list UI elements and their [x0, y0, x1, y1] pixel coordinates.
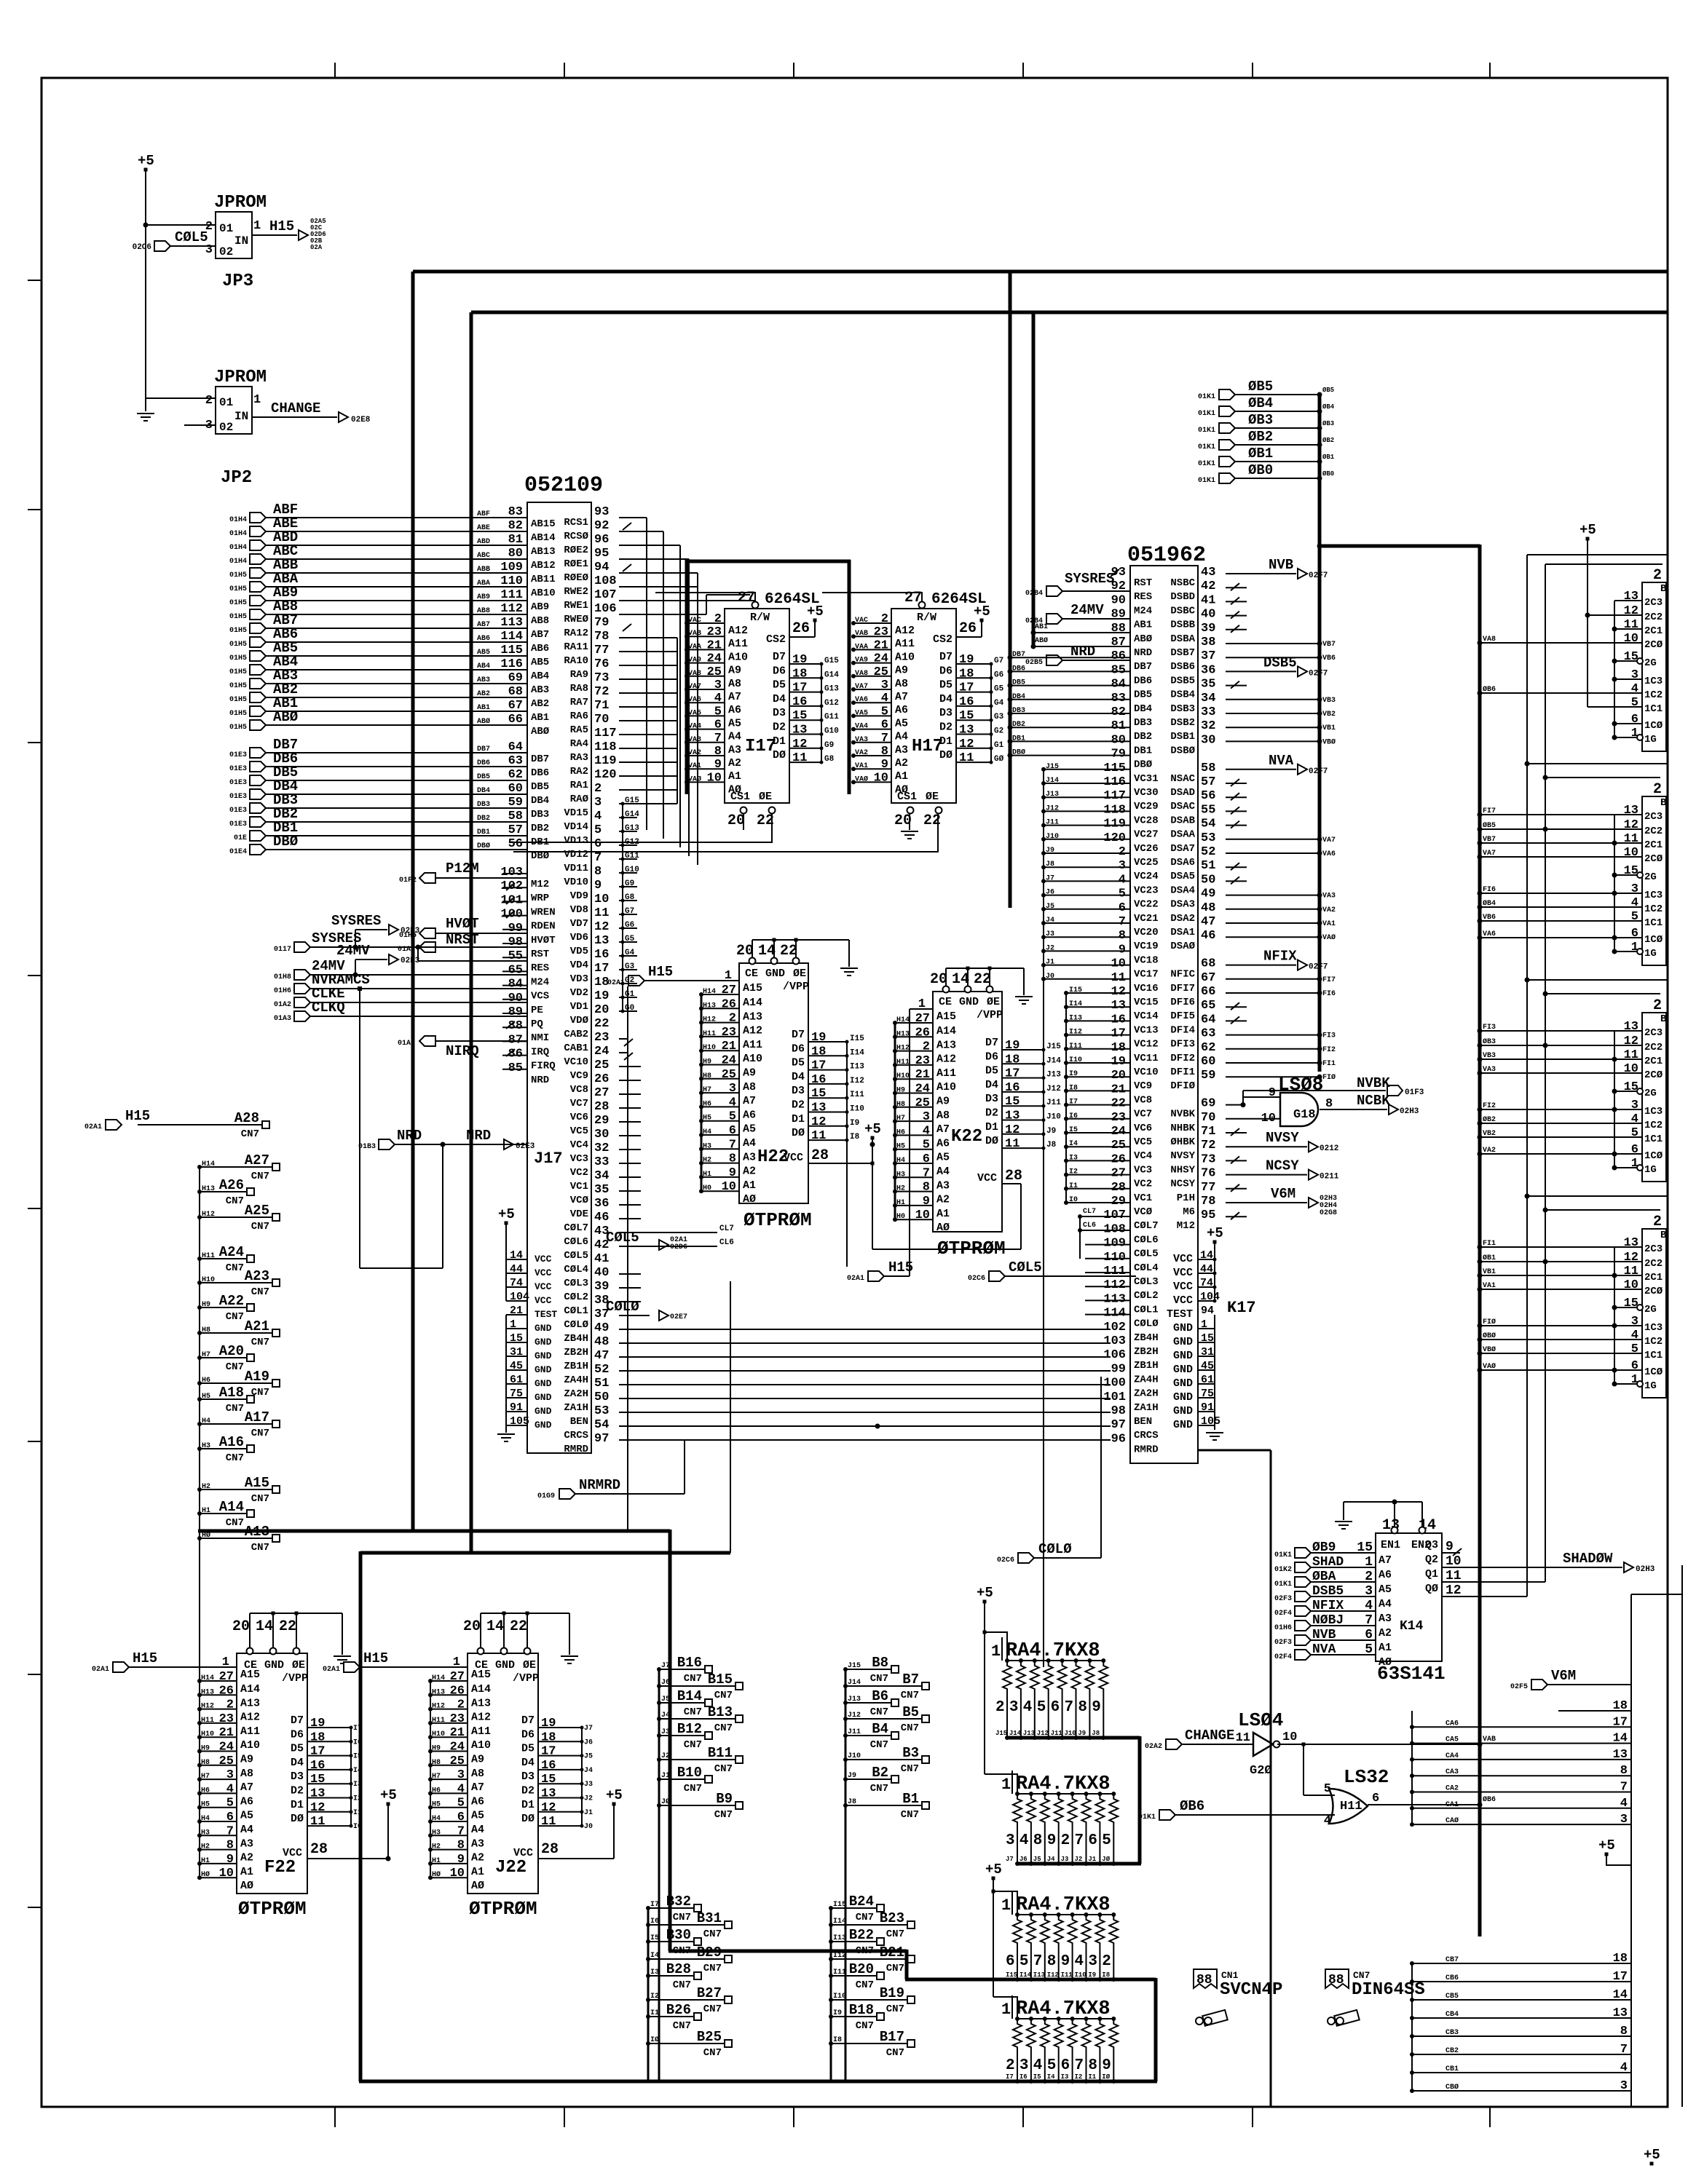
thick bus mid bottom horizontal: [669, 1950, 907, 1953]
svg-text:58: 58: [1201, 761, 1215, 775]
svg-text:01H4: 01H4: [229, 544, 247, 552]
svg-text:B5: B5: [902, 1704, 919, 1720]
svg-text:1: 1: [991, 1642, 1001, 1661]
svg-text:H4: H4: [703, 1128, 711, 1136]
svg-text:ABA: ABA: [477, 579, 490, 587]
svg-text:G1: G1: [625, 990, 635, 999]
svg-text:12: 12: [1624, 1034, 1638, 1048]
svg-text:4: 4: [1119, 873, 1126, 887]
svg-text:DSBØ: DSBØ: [1170, 745, 1195, 756]
svg-text:VC28: VC28: [1134, 815, 1159, 826]
svg-text:VC7: VC7: [1134, 1109, 1152, 1120]
svg-text:94: 94: [1201, 1305, 1214, 1317]
svg-text:AB11: AB11: [531, 574, 556, 585]
svg-text:CN7: CN7: [703, 2003, 722, 2015]
flag SYSRES input 02B4 to K17: [1025, 569, 1130, 598]
svg-text:IØ: IØ: [1102, 2073, 1110, 2081]
svg-text:I4: I4: [650, 1952, 659, 1960]
svg-text:02H3: 02H3: [1636, 1565, 1655, 1574]
svg-text:13: 13: [792, 724, 807, 737]
svg-text:45: 45: [1201, 1360, 1214, 1372]
svg-text:120: 120: [1103, 831, 1126, 845]
svg-text:21: 21: [722, 1040, 736, 1053]
svg-text:0212: 0212: [1320, 1144, 1338, 1153]
svg-text:98: 98: [1111, 1404, 1126, 1418]
svg-text:12: 12: [1005, 1123, 1019, 1137]
wire mux inputs from bus: [1478, 1024, 1615, 1157]
svg-text:V6M: V6M: [1271, 1186, 1295, 1202]
svg-text:VA3: VA3: [855, 736, 868, 744]
svg-text:73: 73: [1201, 1152, 1215, 1166]
svg-text:ZA4H: ZA4H: [564, 1374, 588, 1386]
svg-text:A27: A27: [245, 1152, 269, 1168]
svg-text:A11: A11: [743, 1039, 762, 1051]
svg-text:10: 10: [1624, 632, 1638, 646]
svg-text:DSB5: DSB5: [1170, 675, 1195, 687]
svg-text:B7: B7: [902, 1671, 919, 1688]
svg-text:D2: D2: [773, 721, 786, 734]
svg-text:VC10: VC10: [564, 1056, 588, 1068]
svg-text:A17: A17: [245, 1409, 269, 1425]
svg-text:H3: H3: [202, 1442, 210, 1450]
svg-text:G11: G11: [625, 852, 639, 860]
svg-text:CHANGE: CHANGE: [1185, 1728, 1234, 1744]
svg-text:/VPP: /VPP: [282, 1672, 308, 1685]
svg-text:ØB0: ØB0: [1248, 462, 1273, 478]
svg-text:3: 3: [1009, 1699, 1019, 1716]
wire V6M output arrows: [1226, 1184, 1337, 1219]
svg-text:VA3: VA3: [1483, 1066, 1496, 1074]
svg-text:6: 6: [1119, 901, 1126, 915]
svg-text:FI6: FI6: [1322, 990, 1336, 998]
svg-text:H10: H10: [202, 1276, 215, 1284]
svg-text:01E3: 01E3: [229, 751, 247, 759]
svg-text:13: 13: [1613, 2006, 1628, 2020]
gate G18 LS08 AND: [1226, 1074, 1333, 1126]
svg-text:64: 64: [508, 740, 523, 754]
svg-text:2: 2: [1102, 1953, 1111, 1970]
svg-text:77: 77: [594, 644, 609, 657]
svg-text:CN7: CN7: [684, 1706, 702, 1718]
svg-text:A26: A26: [219, 1177, 244, 1193]
svg-text:1G: 1G: [1644, 734, 1657, 745]
svg-text:2: 2: [923, 1040, 930, 1054]
svg-text:66: 66: [1201, 985, 1215, 999]
svg-text:G18: G18: [1293, 1108, 1316, 1122]
svg-text:J15: J15: [1046, 1042, 1061, 1051]
svg-text:AB10: AB10: [531, 587, 556, 599]
svg-text:A15: A15: [240, 1669, 260, 1681]
svg-text:I1: I1: [1088, 2073, 1096, 2081]
svg-text:NVBK: NVBK: [1357, 1075, 1390, 1091]
svg-text:01K1: 01K1: [1198, 460, 1215, 468]
svg-text:CØL5: CØL5: [606, 1230, 639, 1246]
svg-text:D4: D4: [792, 1071, 805, 1083]
svg-text:18: 18: [1005, 1053, 1019, 1067]
svg-text:ØHBK: ØHBK: [1170, 1136, 1195, 1148]
svg-text:13: 13: [541, 1787, 556, 1801]
svg-text:25: 25: [450, 1754, 465, 1768]
svg-text:9: 9: [226, 1853, 234, 1867]
svg-text:8: 8: [1620, 1764, 1628, 1778]
svg-text:TEST: TEST: [535, 1309, 557, 1320]
svg-text:1: 1: [1001, 1776, 1011, 1794]
svg-text:VC17: VC17: [1134, 969, 1159, 981]
svg-text:D5: D5: [792, 1057, 805, 1069]
svg-text:16: 16: [594, 948, 609, 962]
wire NVB output arrow 02F7: [1226, 557, 1328, 580]
svg-text:6: 6: [881, 719, 888, 732]
svg-text:2C2: 2C2: [1644, 826, 1663, 837]
svg-text:32: 32: [1201, 719, 1215, 733]
svg-text:02A1: 02A1: [92, 1666, 109, 1674]
svg-text:A8: A8: [240, 1768, 253, 1780]
svg-text:6: 6: [1372, 1792, 1379, 1805]
svg-text:11: 11: [811, 1129, 826, 1143]
svg-text:106: 106: [1103, 1348, 1126, 1362]
svg-text:11: 11: [1624, 618, 1638, 632]
svg-text:J15: J15: [848, 1662, 861, 1670]
svg-text:H14: H14: [896, 1016, 910, 1024]
svg-text:I14: I14: [1019, 1971, 1032, 1979]
svg-text:60: 60: [508, 782, 523, 796]
svg-text:NHSY: NHSY: [1170, 1164, 1195, 1176]
svg-text:69: 69: [1201, 1097, 1215, 1111]
svg-text:DSB5: DSB5: [1263, 654, 1297, 670]
svg-text:8: 8: [226, 1839, 234, 1853]
svg-text:A25: A25: [245, 1203, 269, 1219]
svg-text:DB2: DB2: [477, 815, 490, 823]
svg-text:ZB1H: ZB1H: [1134, 1360, 1159, 1372]
svg-text:J1: J1: [1046, 959, 1054, 967]
flag H15 input 02A1 bottom: [847, 1259, 913, 1283]
svg-text:R/W: R/W: [917, 612, 936, 624]
connector pins B16-B9 CN7: [657, 1655, 743, 2081]
svg-text:3: 3: [1119, 859, 1126, 873]
thick bus vertical near 051962: [1009, 272, 1012, 908]
svg-text:21: 21: [1111, 1083, 1126, 1096]
svg-text:VA9: VA9: [688, 657, 701, 665]
svg-text:17: 17: [1613, 1970, 1628, 1984]
svg-text:VA9: VA9: [855, 657, 868, 665]
svg-text:CA3: CA3: [1446, 1768, 1459, 1776]
svg-text:B3: B3: [902, 1745, 919, 1761]
svg-text:NCSY: NCSY: [1170, 1179, 1195, 1190]
svg-text:47: 47: [1201, 915, 1215, 929]
svg-text:87: 87: [508, 1033, 523, 1047]
svg-text:A2: A2: [728, 757, 741, 769]
svg-text:3: 3: [1620, 2079, 1628, 2093]
wire J22 A15 H15 input flag 02A1: [323, 1650, 491, 1681]
wire CA bus vertical: [1411, 1711, 1413, 1824]
svg-text:/VPP: /VPP: [977, 1009, 1003, 1021]
svg-text:33: 33: [1201, 705, 1215, 719]
svg-text:CN7: CN7: [870, 1706, 888, 1718]
svg-text:CRCS: CRCS: [564, 1430, 588, 1441]
svg-text:51: 51: [1201, 859, 1215, 873]
svg-text:DB3: DB3: [1134, 717, 1152, 729]
wire H bus vertical A-connector: [199, 1167, 200, 1877]
svg-text:VA3: VA3: [1322, 893, 1336, 901]
svg-text:I11: I11: [850, 1091, 864, 1099]
svg-text:CE: CE: [745, 968, 758, 980]
svg-text:6: 6: [457, 1811, 465, 1824]
svg-text:G3: G3: [994, 713, 1004, 721]
svg-text:051962: 051962: [1127, 543, 1206, 568]
svg-text:H13: H13: [896, 1030, 910, 1038]
svg-text:90: 90: [1111, 593, 1126, 607]
svg-text:9: 9: [1102, 2057, 1111, 2074]
svg-text:H11: H11: [202, 1252, 215, 1260]
svg-text:DFI5: DFI5: [1170, 1010, 1195, 1022]
wire mux inputs from bus: [1478, 807, 1615, 941]
svg-text:J8: J8: [1046, 860, 1054, 869]
svg-text:10: 10: [707, 771, 722, 785]
svg-text:LSØ4: LSØ4: [1238, 1709, 1283, 1731]
svg-text:A1: A1: [471, 1866, 484, 1878]
svg-text:VA1: VA1: [688, 762, 701, 770]
svg-text:112: 112: [1103, 1278, 1126, 1292]
svg-text:D1: D1: [773, 735, 786, 748]
svg-text:01F3: 01F3: [1405, 1088, 1424, 1097]
svg-text:11: 11: [1624, 832, 1638, 846]
svg-text:CL6: CL6: [1083, 1222, 1096, 1230]
wire I17 CS1 OE bottom pins: [727, 807, 776, 830]
svg-text:13: 13: [1624, 1236, 1638, 1250]
svg-text:B31: B31: [697, 1910, 722, 1926]
svg-text:FI6: FI6: [1483, 886, 1496, 894]
svg-text:01K1: 01K1: [1198, 443, 1215, 451]
svg-text:DSB2: DSB2: [1170, 717, 1195, 729]
svg-text:10: 10: [874, 771, 888, 785]
svg-text:A15: A15: [245, 1475, 269, 1491]
svg-text:CN7: CN7: [714, 1763, 733, 1775]
svg-text:CN7: CN7: [251, 1542, 269, 1554]
svg-text:113: 113: [500, 616, 523, 630]
svg-text:A2: A2: [936, 1194, 950, 1206]
svg-text:B: B: [1660, 583, 1667, 595]
svg-text:QØ: QØ: [1425, 1583, 1438, 1595]
svg-text:DB4: DB4: [477, 787, 490, 795]
svg-text:1C3: 1C3: [1644, 676, 1663, 687]
svg-text:VC19: VC19: [1134, 941, 1159, 952]
svg-text:A2: A2: [743, 1166, 756, 1178]
svg-text:95: 95: [594, 547, 609, 561]
flag CLKQ input 01A3: [274, 1000, 527, 1023]
svg-text:53: 53: [1201, 831, 1215, 845]
IC mux block at y1094: [1612, 781, 1668, 965]
svg-text:H2: H2: [432, 1843, 441, 1851]
svg-text:119: 119: [594, 754, 617, 768]
thick bus VA rail H17 vertical: [848, 560, 851, 794]
svg-text:GND: GND: [495, 1659, 515, 1671]
svg-text:VB1: VB1: [1483, 1268, 1496, 1276]
svg-text:B: B: [1660, 797, 1667, 809]
svg-text:18: 18: [811, 1045, 826, 1059]
svg-text:A18: A18: [219, 1385, 244, 1401]
svg-text:2: 2: [594, 782, 602, 796]
svg-text:02F3: 02F3: [1274, 1639, 1292, 1647]
svg-text:A2: A2: [895, 757, 908, 769]
svg-text:H13: H13: [703, 1002, 716, 1010]
svg-text:104: 104: [1200, 1291, 1220, 1303]
svg-text:CN7: CN7: [856, 1945, 874, 1957]
wire K22 A15 feed: [910, 1009, 933, 1276]
svg-text:9: 9: [714, 758, 722, 772]
svg-text:01: 01: [219, 396, 233, 409]
svg-text:02F7: 02F7: [1309, 767, 1328, 776]
svg-text:VD10: VD10: [564, 877, 588, 888]
svg-text:ØE: ØE: [926, 791, 939, 803]
svg-text:A7: A7: [471, 1781, 484, 1794]
svg-text:DB1: DB1: [1134, 745, 1152, 756]
svg-text:17: 17: [541, 1745, 556, 1759]
svg-text:J4: J4: [661, 1712, 670, 1720]
svg-text:5: 5: [226, 1797, 234, 1811]
svg-text:A12: A12: [240, 1712, 260, 1724]
power +5 to RA packs 1-2: [977, 1585, 1017, 1794]
svg-text:A3: A3: [895, 744, 908, 756]
svg-text:J1: J1: [584, 1809, 593, 1817]
svg-text:CØL2: CØL2: [564, 1291, 588, 1303]
flag NRD input 01B3 with arrow 02E3: [358, 1128, 535, 1151]
thick bus 0B to right blocks: [1318, 545, 1480, 548]
svg-text:26: 26: [1111, 1152, 1126, 1166]
svg-text:B2: B2: [872, 1765, 888, 1781]
svg-text:H1: H1: [703, 1171, 711, 1179]
svg-text:SVCN4P: SVCN4P: [1220, 1980, 1282, 2000]
svg-text:15: 15: [1624, 1080, 1638, 1094]
svg-text:GND: GND: [959, 996, 979, 1008]
svg-text:3: 3: [1019, 2057, 1029, 2074]
svg-text:J9: J9: [1046, 847, 1054, 855]
svg-text:A12: A12: [936, 1053, 956, 1066]
svg-text:DFI2: DFI2: [1170, 1053, 1195, 1064]
thick bus above B-connectors horizontal: [198, 1530, 670, 1533]
svg-text:RST: RST: [1134, 577, 1152, 589]
svg-text:A2: A2: [471, 1852, 484, 1864]
svg-text:VCC: VCC: [1173, 1281, 1193, 1293]
svg-text:118: 118: [1103, 803, 1126, 817]
svg-text:115: 115: [500, 644, 523, 657]
svg-text:G14: G14: [824, 670, 839, 679]
svg-text:13: 13: [310, 1787, 325, 1801]
svg-text:83: 83: [1111, 692, 1126, 705]
wire F22 VCC to +5: [307, 1787, 397, 1861]
svg-text:JPROM: JPROM: [214, 193, 267, 213]
svg-text:AB3: AB3: [531, 684, 549, 696]
svg-text:15: 15: [1357, 1540, 1373, 1555]
svg-text:5: 5: [1365, 1642, 1373, 1657]
svg-text:D3: D3: [939, 707, 953, 719]
svg-text:CB7: CB7: [1446, 1956, 1459, 1964]
svg-text:H8: H8: [432, 1759, 441, 1767]
wire DB7-DB0 long bus into K17: [1008, 651, 1131, 758]
svg-text:8: 8: [1033, 1832, 1043, 1849]
svg-text:113: 113: [1103, 1292, 1126, 1306]
svg-text:42: 42: [1201, 579, 1215, 593]
svg-text:VA6: VA6: [688, 696, 701, 704]
svg-text:28: 28: [811, 1147, 829, 1164]
svg-text:G12: G12: [824, 699, 839, 708]
svg-text:CL7: CL7: [1083, 1208, 1096, 1216]
svg-text:J1: J1: [661, 1772, 670, 1780]
svg-text:47: 47: [594, 1349, 609, 1363]
svg-text:VAØ: VAØ: [1483, 1362, 1496, 1371]
svg-text:A24: A24: [219, 1244, 244, 1260]
svg-text:66: 66: [508, 713, 523, 727]
svg-text:01H5: 01H5: [229, 668, 247, 676]
svg-text:ØTPRØM: ØTPRØM: [744, 1209, 812, 1231]
svg-text:A20: A20: [219, 1343, 244, 1359]
svg-text:J11: J11: [1046, 1099, 1061, 1107]
wire K17 to CN7 net elbow: [1198, 1450, 1271, 2106]
svg-text:VCC: VCC: [283, 1847, 302, 1859]
svg-text:J11: J11: [1046, 819, 1059, 827]
svg-text:B27: B27: [697, 1985, 722, 2001]
svg-text:DB4: DB4: [1134, 703, 1152, 715]
svg-text:NHBK: NHBK: [1170, 1123, 1195, 1134]
svg-text:FI7: FI7: [1483, 807, 1496, 815]
svg-text:85: 85: [508, 1061, 523, 1075]
svg-text:VD3: VD3: [570, 973, 588, 985]
svg-text:VB7: VB7: [1483, 836, 1496, 844]
svg-text:RA8: RA8: [570, 683, 588, 695]
svg-text:A1: A1: [895, 770, 908, 783]
svg-text:J13: J13: [848, 1696, 861, 1704]
svg-text:16: 16: [1111, 1013, 1126, 1026]
svg-text:27: 27: [722, 984, 736, 997]
svg-text:D5: D5: [521, 1743, 535, 1755]
svg-text:052109: 052109: [524, 473, 603, 498]
svg-text:B13: B13: [708, 1704, 733, 1720]
svg-text:J9: J9: [1046, 1127, 1056, 1136]
svg-text:106: 106: [594, 602, 617, 616]
svg-text:VC11: VC11: [1134, 1053, 1159, 1064]
svg-text:A11: A11: [895, 638, 915, 650]
svg-text:40: 40: [594, 1266, 609, 1280]
svg-text:23: 23: [722, 1026, 736, 1040]
svg-text:J13: J13: [1046, 791, 1059, 799]
svg-text:H3: H3: [703, 1142, 711, 1150]
svg-text:CN7: CN7: [901, 1809, 919, 1821]
svg-text:46: 46: [594, 1211, 609, 1224]
svg-text:D4: D4: [773, 693, 786, 705]
svg-text:02F7: 02F7: [1309, 963, 1328, 972]
svg-text:P12M: P12M: [446, 860, 479, 877]
svg-text:91: 91: [1201, 1401, 1214, 1414]
svg-text:17: 17: [1005, 1067, 1019, 1081]
svg-text:A10: A10: [471, 1739, 491, 1752]
svg-text:01E3: 01E3: [229, 779, 247, 787]
svg-text:AB6: AB6: [477, 635, 490, 643]
svg-text:NCSY: NCSY: [1266, 1158, 1299, 1174]
svg-text:CS2: CS2: [933, 633, 953, 646]
wire C0L0 output with arrow 02E7: [606, 1299, 687, 1321]
svg-text:118: 118: [594, 740, 617, 754]
svg-text:14: 14: [486, 1618, 504, 1635]
svg-text:J4: J4: [584, 1767, 593, 1775]
svg-text:A4: A4: [471, 1824, 484, 1836]
svg-text:ABØ: ABØ: [531, 726, 550, 737]
svg-text:16: 16: [792, 695, 807, 709]
svg-text:CN7: CN7: [703, 2047, 722, 2059]
svg-text:RA7: RA7: [570, 697, 588, 708]
svg-text:5: 5: [923, 1139, 930, 1152]
ground at J17 GND pins: [497, 1425, 515, 1441]
svg-text:CA1: CA1: [1446, 1801, 1459, 1809]
svg-text:27: 27: [915, 1012, 930, 1026]
